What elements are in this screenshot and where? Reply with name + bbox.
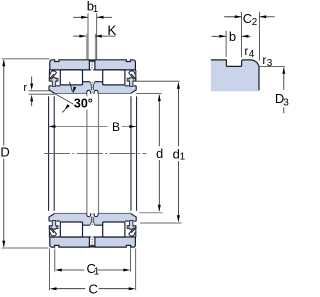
dimension d extension top [136,93,162,95]
inner ring split line right [98,94,100,213]
dimension b1 [73,16,88,18]
dimension C1 extension lines [54,249,56,272]
retaining-ring slot clearance notches right [134,79,136,81]
dimension B [49,126,108,128]
dimension d1 extension bottom [140,222,182,224]
svg-text:1: 1 [93,4,99,15]
dimension K extension bars (grey) [86,34,88,60]
svg-text:r: r [23,82,27,94]
side face line right (retainer zone) [135,70,137,79]
dimension b [212,35,226,37]
centre flange top edges [83,82,90,85]
svg-text:B: B [112,120,120,134]
svg-text:b: b [229,29,236,44]
dimension C2 extension lines [241,12,243,57]
svg-text:1: 1 [180,152,186,163]
retaining ring right (zigzag) [129,71,135,78]
lubrication groove floor (centre) [89,59,95,61]
bottom half of bearing (mirror) [49,213,136,248]
detail outline (visible edges) [211,60,259,91]
dimension K [73,35,86,37]
dimension b1 extension lines [87,13,89,59]
dimension D3 [283,68,285,90]
dimension C2 [224,16,241,18]
dimension C [55,288,85,290]
dimension C extension lines [49,249,51,291]
svg-text:D: D [0,145,9,160]
svg-text:30°: 30° [74,97,93,111]
lubrication hole hatch (outer ring) [91,62,93,70]
dimension d extension bottom (grey) [139,212,162,214]
split funnel between inner-ring halves [90,82,92,91]
bore silhouette line left chamfer [53,96,55,211]
svg-text:C: C [89,282,98,297]
bore silhouette line right face [136,96,138,211]
svg-text:r: r [244,44,248,58]
svg-text:2: 2 [252,17,258,28]
bore line (grey) [54,93,87,95]
raceway line segments beside hole [89,69,91,71]
retaining-ring slot right (cross shape) [127,78,136,87]
V-notch left of split [87,90,91,94]
inner ring face right + chamfer [131,86,137,94]
svg-text:3: 3 [283,97,289,108]
inner ring face left + chamfer [49,86,55,94]
centreline [44,153,147,155]
dimension d1 line [177,83,179,147]
roller right [103,70,125,85]
inner ring left half [49,82,91,94]
svg-text:K: K [107,23,116,38]
side face line left (retainer zone) [48,70,50,79]
inner ring split line left [86,94,88,97]
roller pointer arrow (inside left roller) [70,82,73,91]
dimension D extension bottom [2,247,49,249]
inner ring right half [93,82,136,94]
outer ring corner detail shape [211,60,259,92]
dimension r (left) [29,90,50,92]
30 degree annotation [55,94,74,105]
bore silhouette line right chamfer [130,96,132,211]
bore silhouette line left face [48,96,50,211]
dimension D extension top [2,58,50,60]
dimension C1 [61,269,85,271]
dimension D line [3,60,5,146]
dimension d line [158,95,160,146]
svg-text:4: 4 [249,49,255,60]
retaining ring left (zigzag) [50,71,56,78]
svg-text:1: 1 [94,266,100,277]
svg-text:3: 3 [267,58,273,69]
svg-text:r: r [262,53,266,67]
dimension b extension line [225,31,227,58]
retaining-ring slot left (cross shape) [49,78,58,87]
outer ring right piece [95,60,135,70]
inner ring top edge right side zone [125,85,136,87]
roller left [60,70,82,85]
svg-text:d: d [156,146,163,161]
V-notch right of split [94,90,98,94]
inner ring top edge left side zone [49,85,60,87]
split hatch (inner ring) [91,82,93,93]
retaining-ring slot clearance notches left [50,79,52,81]
dimension D3 groove-diameter line [259,65,285,67]
outer ring left piece [50,60,90,70]
dimension d1 extension top [136,80,179,82]
